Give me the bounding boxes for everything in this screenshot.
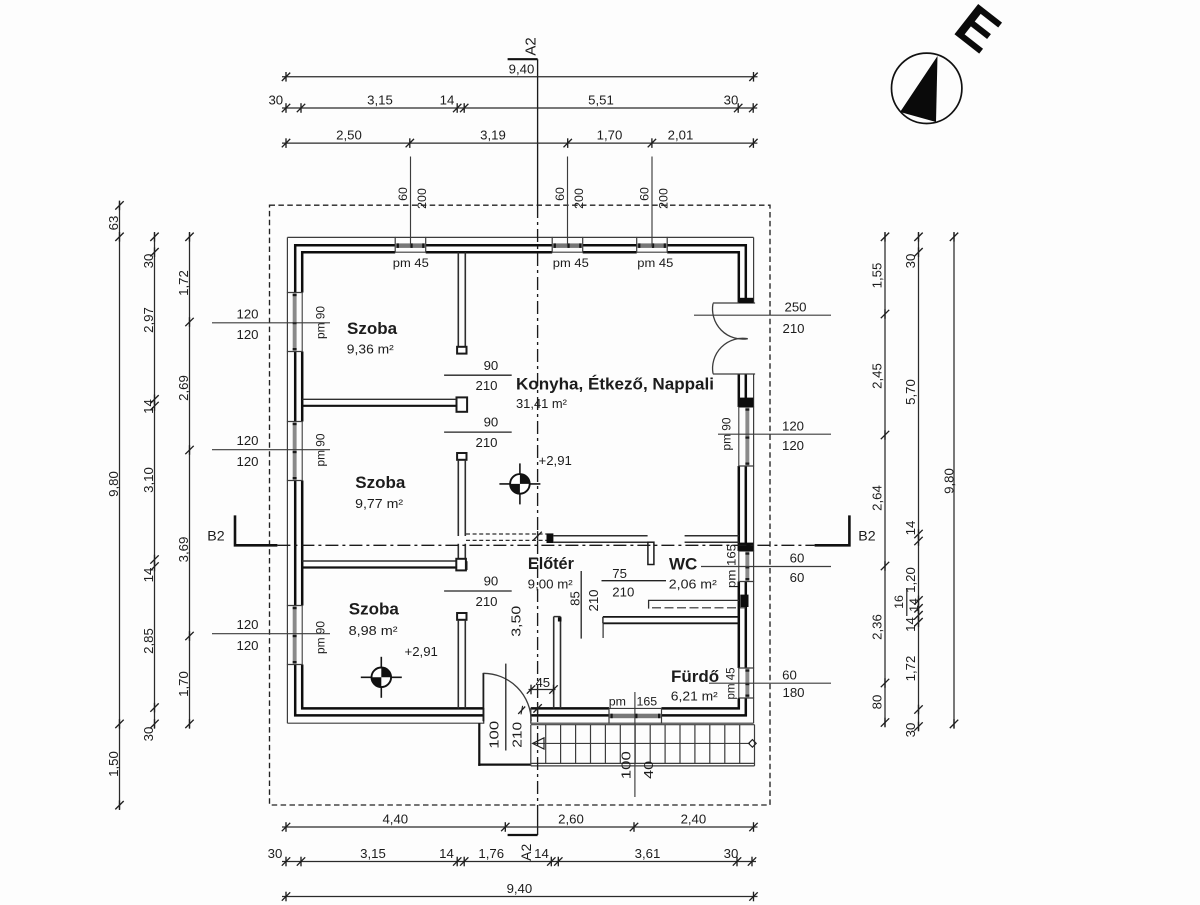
svg-text:14: 14: [907, 598, 921, 612]
svg-text:3,50: 3,50: [509, 606, 524, 637]
svg-text:14: 14: [141, 399, 156, 414]
svg-text:9,00 m²: 9,00 m²: [528, 576, 574, 591]
svg-text:60: 60: [790, 550, 805, 565]
svg-text:1,20: 1,20: [903, 567, 918, 593]
svg-text:60: 60: [638, 187, 652, 201]
svg-text:14: 14: [141, 568, 156, 583]
svg-text:3,15: 3,15: [360, 846, 386, 861]
svg-text:2,45: 2,45: [869, 363, 884, 389]
svg-text:200: 200: [415, 188, 429, 209]
svg-text:200: 200: [657, 188, 671, 209]
svg-text:45: 45: [535, 675, 550, 690]
svg-text:30: 30: [903, 723, 918, 738]
svg-text:14: 14: [903, 521, 918, 536]
svg-text:Konyha, Étkező, Nappali: Konyha, Étkező, Nappali: [516, 375, 714, 394]
svg-text:9,80: 9,80: [106, 471, 121, 497]
svg-text:1,72: 1,72: [176, 270, 191, 296]
svg-text:80: 80: [869, 695, 884, 710]
svg-text:3,19: 3,19: [480, 128, 506, 143]
svg-text:120: 120: [236, 327, 258, 342]
svg-text:5,70: 5,70: [903, 379, 918, 405]
svg-text:120: 120: [236, 306, 258, 321]
svg-text:2,69: 2,69: [176, 375, 191, 401]
svg-text:+2,91: +2,91: [539, 453, 572, 468]
svg-text:120: 120: [236, 617, 258, 632]
svg-text:210: 210: [782, 321, 804, 336]
svg-text:210: 210: [586, 589, 601, 611]
svg-text:30: 30: [141, 727, 156, 742]
svg-text:14: 14: [439, 846, 454, 861]
svg-text:6,21 m²: 6,21 m²: [671, 689, 719, 704]
svg-text:2,60: 2,60: [558, 811, 584, 826]
svg-text:210: 210: [475, 435, 497, 450]
svg-text:1,72: 1,72: [903, 656, 918, 682]
svg-text:9,40: 9,40: [507, 881, 533, 896]
svg-text:100: 100: [487, 721, 502, 749]
svg-text:14: 14: [903, 617, 918, 632]
svg-text:2,50: 2,50: [336, 128, 362, 143]
svg-text:2,97: 2,97: [141, 307, 156, 333]
svg-text:pm 45: pm 45: [553, 256, 589, 270]
svg-text:30: 30: [141, 254, 156, 269]
svg-text:pm 45: pm 45: [637, 256, 673, 270]
svg-text:30: 30: [903, 254, 918, 269]
svg-text:30: 30: [268, 92, 283, 107]
svg-text:2,40: 2,40: [681, 811, 707, 826]
svg-text:120: 120: [236, 433, 258, 448]
svg-text:250: 250: [784, 300, 806, 315]
svg-text:+2,91: +2,91: [405, 644, 438, 659]
svg-text:9,40: 9,40: [509, 61, 535, 76]
svg-text:A2: A2: [523, 37, 540, 55]
svg-text:B2: B2: [858, 528, 875, 544]
svg-text:85: 85: [567, 591, 582, 606]
svg-text:2,06 m²: 2,06 m²: [669, 577, 718, 592]
svg-text:90: 90: [484, 358, 499, 373]
svg-text:210: 210: [475, 378, 497, 393]
svg-text:30: 30: [724, 92, 739, 107]
svg-text:4,40: 4,40: [382, 811, 408, 826]
svg-text:2,36: 2,36: [869, 614, 884, 640]
svg-text:1,70: 1,70: [176, 671, 191, 697]
svg-text:75: 75: [612, 566, 627, 581]
svg-text:9,36 m²: 9,36 m²: [347, 342, 395, 357]
svg-text:90: 90: [484, 574, 499, 589]
svg-text:120: 120: [782, 419, 804, 434]
svg-text:200: 200: [572, 188, 586, 209]
svg-text:9,77 m²: 9,77 m²: [355, 496, 404, 511]
svg-text:30: 30: [268, 846, 283, 861]
svg-text:A2: A2: [518, 844, 534, 861]
svg-text:8,98 m²: 8,98 m²: [349, 623, 399, 638]
svg-text:Szoba: Szoba: [347, 319, 398, 338]
svg-text:16: 16: [892, 595, 906, 609]
svg-text:Előtér: Előtér: [528, 554, 574, 573]
svg-text:63: 63: [106, 216, 121, 231]
svg-text:2,64: 2,64: [869, 485, 884, 511]
svg-text:100: 100: [619, 751, 634, 779]
svg-text:40: 40: [641, 761, 656, 779]
svg-text:3,69: 3,69: [176, 537, 191, 563]
svg-text:1,76: 1,76: [478, 846, 504, 861]
svg-text:30: 30: [724, 846, 739, 861]
svg-text:1,70: 1,70: [597, 128, 623, 143]
svg-text:2,01: 2,01: [668, 128, 694, 143]
svg-text:165: 165: [637, 694, 658, 708]
svg-text:1,50: 1,50: [106, 751, 121, 777]
svg-text:14: 14: [440, 92, 455, 107]
svg-text:2,85: 2,85: [141, 628, 156, 654]
svg-text:60: 60: [396, 187, 410, 201]
svg-text:14: 14: [534, 846, 549, 861]
svg-text:210: 210: [510, 722, 525, 748]
svg-text:B2: B2: [207, 528, 224, 544]
svg-text:3,10: 3,10: [141, 467, 156, 493]
svg-text:120: 120: [782, 438, 804, 453]
svg-text:90: 90: [484, 415, 499, 430]
svg-text:60: 60: [782, 668, 797, 683]
svg-text:Szoba: Szoba: [355, 473, 406, 492]
svg-text:Szoba: Szoba: [349, 600, 400, 619]
svg-text:WC: WC: [669, 554, 697, 573]
svg-text:180: 180: [782, 685, 804, 700]
svg-text:9,80: 9,80: [942, 468, 957, 494]
svg-text:5,51: 5,51: [588, 92, 614, 107]
svg-text:210: 210: [475, 594, 497, 609]
svg-text:120: 120: [236, 638, 258, 653]
svg-text:pm 90: pm 90: [314, 621, 328, 654]
svg-text:210: 210: [612, 584, 634, 599]
svg-text:3,61: 3,61: [635, 846, 661, 861]
svg-text:120: 120: [236, 454, 258, 469]
svg-text:60: 60: [553, 187, 567, 201]
svg-text:pm 45: pm 45: [393, 256, 429, 270]
svg-text:1,55: 1,55: [869, 263, 884, 289]
svg-text:3,15: 3,15: [367, 92, 393, 107]
svg-text:60: 60: [790, 570, 805, 585]
svg-text:pm: pm: [609, 694, 626, 708]
svg-text:31,41 m²: 31,41 m²: [516, 396, 568, 411]
